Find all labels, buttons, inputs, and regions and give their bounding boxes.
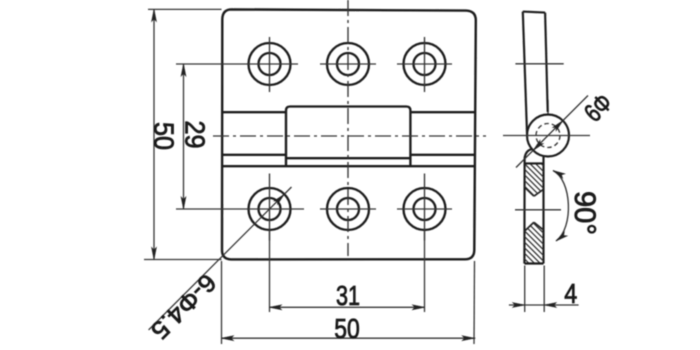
svg-text:90°: 90° <box>568 191 601 235</box>
svg-text:6Φ: 6Φ <box>578 87 618 127</box>
svg-text:6-Φ4.5: 6-Φ4.5 <box>145 268 221 344</box>
svg-text:31: 31 <box>336 280 360 311</box>
svg-text:50: 50 <box>334 313 360 344</box>
svg-text:4: 4 <box>564 278 577 309</box>
svg-text:50: 50 <box>149 122 180 150</box>
svg-text:29: 29 <box>180 121 211 149</box>
